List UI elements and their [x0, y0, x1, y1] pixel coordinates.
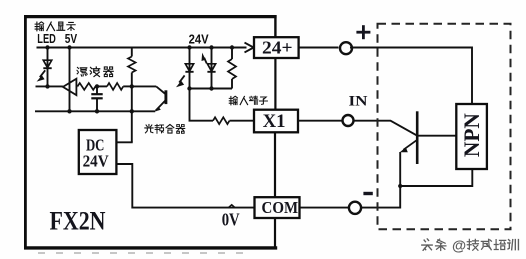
terminal box X1: [254, 110, 298, 133]
opto LED D3: [207, 64, 215, 72]
junction dots ground rail: [67, 109, 134, 113]
wire: opto cathode junction rail: [190, 88, 233, 90]
wire: minus circle to emitter riser: [361, 152, 400, 208]
wire: pull-up branch upper lead: [131, 48, 133, 57]
wire: R1 to R2: [96, 85, 108, 87]
junction dot emitter branch: [398, 184, 402, 188]
amplifier buffer triangle: [63, 79, 77, 95]
svg-text:IN: IN: [349, 94, 368, 110]
sensor transistor Q2 base bar: [416, 111, 419, 164]
wire: plus circle to NPN box top: [350, 48, 472, 105]
wire: mid rail (filter line): [36, 85, 63, 87]
svg-text:X1: X1: [263, 111, 286, 132]
svg-text:5V: 5V: [65, 32, 78, 46]
resistor R5 series input: [213, 117, 229, 124]
wire: IN circle to transistor base: [353, 121, 416, 136]
wire: input resistor lower lead: [231, 79, 233, 89]
PLC right border segment below COM: [274, 218, 276, 247]
wire: emitter branch to NPN box bottom: [400, 169, 472, 186]
wire: ground rail: [35, 110, 155, 112]
wire: triangle base to R1: [76, 85, 77, 87]
terminal box COM: [255, 197, 300, 218]
PLC right border segment between X1 and COM: [274, 132, 276, 197]
svg-text:COM: COM: [262, 198, 299, 217]
wire: 5V branch through amplifier to ground rail: [69, 48, 71, 112]
NPN sensor body box: [456, 104, 487, 169]
phototransistor Q1 base bar: [164, 90, 167, 104]
wire: R5 to X1 terminal: [230, 120, 255, 122]
PLC enclosure FX2N outer box: top border: [24, 15, 277, 18]
phototransistor Q1 collector lead: [133, 86, 165, 94]
wire: R2 to pull-up node: [123, 85, 133, 87]
PLC enclosure left border: [24, 15, 27, 249]
svg-text:0V: 0V: [222, 209, 240, 229]
svg-text:24V: 24V: [189, 33, 210, 47]
wire: X1 to IN terminal circle: [298, 120, 343, 122]
label FX2N: [50, 206, 106, 236]
label 0V: [222, 209, 240, 229]
svg-text:FX2N: FX2N: [50, 206, 106, 236]
opto LED D2: [185, 64, 193, 72]
svg-text:@: @: [452, 239, 466, 255]
capacitor C1 branch top lead: [96, 86, 98, 93]
terminal circle IN: [343, 115, 354, 126]
LED D1 input display: [43, 60, 51, 68]
wire: opto LED branch 1: [189, 48, 191, 89]
wire: drop to X1 line: [190, 89, 214, 121]
PLC enclosure bottom border: [24, 246, 277, 249]
svg-text:NPN: NPN: [459, 113, 484, 157]
label LED 5V: [37, 32, 77, 46]
label minus sign: [363, 192, 372, 195]
label IN: [349, 94, 368, 110]
wire: 24+ to plus terminal circle: [299, 47, 339, 49]
svg-text:24+: 24+: [262, 38, 293, 58]
wire: DC box bottom stub to 0V line: [116, 164, 254, 208]
PLC right border segment above terminal 24+: [274, 15, 276, 37]
wire: DC box top stub: [116, 141, 132, 143]
PLC right border segment between 24+ and X1: [274, 58, 276, 110]
scan artifact dashes under bottom border: [38, 252, 252, 254]
sensor dashed enclosure: [378, 24, 511, 230]
wire: top 5V/24V rail: [37, 47, 247, 49]
LED emission arrow: [37, 70, 46, 81]
junction dots top rail: [45, 45, 234, 49]
terminal circle minus: [349, 202, 361, 214]
terminal box 24+: [254, 37, 299, 58]
label CJK 输入端子: [229, 96, 267, 105]
wire: LED branch from top rail: [47, 48, 49, 87]
junction dots opto cathode rail: [187, 86, 213, 90]
wire: COM to minus terminal circle: [300, 207, 349, 209]
watermark 头条 @技成培训: [422, 239, 519, 255]
capacitor C1 bottom lead: [96, 98, 98, 111]
resistor R4 input limiter: [228, 59, 236, 79]
label CJK 输入显示: [35, 22, 75, 31]
capacitor C1 plates: [91, 94, 102, 98]
optocoupler light arrow B: [202, 53, 207, 64]
label CJK 光耦合器: [145, 124, 185, 133]
wire: input resistor branch upper lead: [231, 48, 233, 60]
resistor R2 filter: [107, 83, 123, 90]
arrowhead into 24+ terminal: [245, 43, 254, 53]
wire: opto LED branch 2: [211, 48, 213, 89]
label 24V top: [189, 33, 210, 47]
sensor transistor Q2 emitter lead with arrow: [400, 140, 417, 152]
0V wire bump artifact: [229, 205, 235, 208]
resistor R1 filter: [78, 83, 96, 90]
optocoupler light arrow A: [176, 75, 185, 87]
svg-text:LED: LED: [37, 32, 56, 46]
DC 24V supply box: [79, 130, 117, 174]
junction dots mid rail: [45, 84, 134, 88]
svg-text:24V: 24V: [83, 151, 110, 170]
phototransistor Q1 emitter lead with arrow: [154, 101, 165, 112]
sensor transistor Q2 collector lead to NPN box: [417, 135, 456, 137]
wire: pull-up lower lead down to DC box stub: [131, 73, 133, 143]
resistor R3 pull-up: [128, 57, 136, 73]
terminal circle plus: [340, 42, 352, 54]
label CJK 滤波器: [77, 67, 113, 77]
label plus sign: [356, 25, 370, 39]
